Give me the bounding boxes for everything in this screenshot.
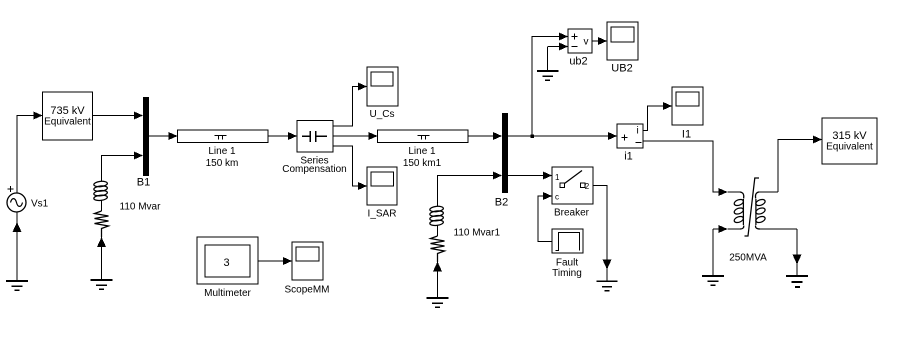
svg-text:Line 1: Line 1 <box>208 146 236 157</box>
wire ub2 to UB2 scope <box>592 40 600 42</box>
svg-text:Multimeter: Multimeter <box>204 288 251 299</box>
svg-text:I1: I1 <box>682 129 691 141</box>
wire transformer secondary bottom to ground <box>796 229 798 276</box>
svg-text:315 kV: 315 kV <box>832 130 867 142</box>
wire Breaker output to ground <box>593 186 607 282</box>
svg-text:110 Mvar: 110 Mvar <box>120 202 162 213</box>
capacitor icon inside Series Compensation <box>302 131 327 142</box>
arrow into ub2 minus <box>559 43 568 51</box>
wire Line 1 150km1 to bus B2 <box>468 135 495 137</box>
reactor 110 Mvar1 lower lead <box>437 254 439 298</box>
transformer winding terminal stubs <box>728 192 798 229</box>
reactor 110 Mvar1 connecting lead <box>437 225 439 236</box>
arrow into bus B2 (bottom) <box>493 172 502 180</box>
arrow into ScopeMM <box>283 257 292 265</box>
wire Vs1 to 735 kV block <box>17 116 35 194</box>
block Multimeter <box>197 237 258 284</box>
arrow into bus B1 (top) <box>134 112 143 120</box>
arrow into Breaker input 1 <box>543 172 552 180</box>
wire bus B1 to Line 1 <box>149 135 170 137</box>
svg-text:B1: B1 <box>137 177 150 189</box>
svg-text:2: 2 <box>585 182 590 191</box>
reactor 110 Mvar1 coil <box>430 206 444 226</box>
svg-text:250MVA: 250MVA <box>729 252 767 263</box>
svg-text:Fault: Fault <box>556 257 578 268</box>
arrow into ub2 plus <box>559 33 568 41</box>
wire Series Compensation to U_Cs <box>333 87 360 127</box>
svg-text:i1: i1 <box>624 151 633 163</box>
ground under 110 Mvar <box>91 280 113 289</box>
svg-text:110 Mvar1: 110 Mvar1 <box>454 228 501 239</box>
svg-text:ub2: ub2 <box>569 55 587 67</box>
junction node on B2-i1 wire <box>530 134 534 138</box>
svg-text:ScopeMM: ScopeMM <box>284 285 329 296</box>
svg-text:Equivalent: Equivalent <box>826 142 873 153</box>
arrow into I_SAR <box>358 182 367 190</box>
wire Series Compensation to Line 1 150km1 <box>333 135 370 137</box>
block Breaker <box>552 167 593 204</box>
wire Fault Timing to Breaker input c <box>538 196 552 242</box>
transformer core line <box>745 178 760 236</box>
wire 735 kV block to bus B1 <box>93 115 136 117</box>
arrow into bus B2 (top) <box>493 132 502 140</box>
svg-text:i: i <box>637 126 639 137</box>
arrow up on reactor 110 Mvar1 lead <box>433 262 442 272</box>
bus B1 <box>143 97 149 176</box>
block 735 kV Equivalent <box>43 92 93 140</box>
bus B2 <box>502 113 508 193</box>
wire transformer secondary top to 315 kV block <box>778 140 815 193</box>
block Fault Timing <box>552 229 583 253</box>
wire i1 'i' output to I1 scope <box>643 106 665 131</box>
wire bus B2 to Breaker input 1 <box>508 175 545 177</box>
arrow up on reactor lead <box>97 237 106 247</box>
wire Line 1 to Series Compensation <box>268 135 290 137</box>
block Line 1 (150 km) <box>178 130 269 143</box>
transformer 250MVA secondary winding <box>755 192 766 229</box>
arrow into i1 <box>608 132 617 140</box>
svg-text:Vs1: Vs1 <box>31 199 49 210</box>
arrow down on breaker ground lead <box>603 260 612 270</box>
wire Vs1 down to ground <box>16 212 18 280</box>
svg-text:150 km1: 150 km1 <box>403 158 442 169</box>
svg-text:U_Cs: U_Cs <box>369 109 394 120</box>
ground under 110 Mvar1 <box>427 298 449 307</box>
arrow into bus B1 (bottom) <box>134 152 143 160</box>
arrow into Breaker input c <box>543 192 552 200</box>
reactor 110 Mvar resistor zigzag <box>95 211 109 237</box>
svg-text:UB2: UB2 <box>611 62 632 74</box>
arrow into 315 kV block <box>813 136 822 144</box>
breaker switch icon <box>560 183 565 188</box>
scope I1 <box>672 87 703 125</box>
svg-text:Compensation: Compensation <box>282 164 346 175</box>
wire junction up to ub2 plus input <box>532 37 561 137</box>
wire transformer primary bottom to ground <box>713 229 719 276</box>
wire bus B2 to i1 <box>508 135 610 137</box>
block Line 1 (150 km1) <box>378 130 469 143</box>
svg-text:Equivalent: Equivalent <box>44 117 91 128</box>
svg-text:Timing: Timing <box>552 268 582 279</box>
svg-text:I_SAR: I_SAR <box>368 209 397 220</box>
svg-text:c: c <box>555 193 559 202</box>
arrow into I1 <box>663 102 672 110</box>
reactor 110 Mvar coil <box>94 181 108 201</box>
block 315 kV Equivalent <box>822 118 877 164</box>
pi icon of Line 1 <box>215 136 227 140</box>
scope U_Cs <box>367 67 398 106</box>
arrow into transformer primary bottom <box>719 225 728 233</box>
wire Multimeter to ScopeMM <box>258 260 285 262</box>
arrow into transformer primary top <box>719 188 728 196</box>
scope UB2 <box>607 22 638 60</box>
arrow down on secondary ground lead <box>793 255 802 265</box>
arrow into UB2 <box>598 37 607 45</box>
arrow into Line 1 150km1 <box>369 132 378 140</box>
arrow into Series Compensation <box>288 132 297 140</box>
ground under Vs1 <box>6 281 28 290</box>
wire Series Compensation to I_SAR <box>333 146 360 186</box>
svg-text:3: 3 <box>223 257 229 269</box>
arrow up on Vs1 ground lead <box>13 222 22 232</box>
ground under transformer left <box>702 276 724 285</box>
svg-text:1: 1 <box>555 173 560 182</box>
svg-text:Breaker: Breaker <box>554 207 590 218</box>
svg-text:735 kV: 735 kV <box>50 105 85 117</box>
svg-text:150 km: 150 km <box>206 158 239 169</box>
arrow into Line 1 <box>169 132 178 140</box>
pulse icon of Fault Timing <box>556 233 580 251</box>
reactor 110 Mvar: top wire to bus B1 <box>102 156 136 182</box>
transformer 250MVA primary winding <box>733 192 744 229</box>
block Series Compensation <box>297 121 333 153</box>
arrow into 735 kV block <box>34 112 43 120</box>
svg-text:Line 1: Line 1 <box>408 146 436 157</box>
reactor 110 Mvar lower lead <box>101 229 103 280</box>
arrow into U_Cs <box>358 83 367 91</box>
wire ground to ub2 minus input <box>548 46 561 48</box>
block i1 (current measurement) <box>617 124 643 148</box>
scope I_SAR <box>367 167 397 205</box>
ground under transformer right <box>786 276 808 287</box>
ground under Breaker output <box>597 281 618 290</box>
reactor 110 Mvar1 resistor zigzag <box>431 236 445 262</box>
wire i1 minus output to transformer <box>643 141 719 192</box>
block ub2 (voltage measurement) <box>568 29 592 53</box>
ground for ub2 minus input <box>547 47 549 71</box>
plus sign of Vs1 <box>8 186 14 192</box>
reactor 110 Mvar1: top wire to bus B2 <box>438 176 495 207</box>
svg-text:v: v <box>584 37 589 48</box>
scope ScopeMM <box>292 242 323 280</box>
svg-text:B2: B2 <box>495 197 508 209</box>
voltage source Vs1 <box>7 193 26 212</box>
reactor 110 Mvar connecting lead <box>101 200 103 211</box>
pi icon of Line 1 150km1 <box>418 136 430 140</box>
